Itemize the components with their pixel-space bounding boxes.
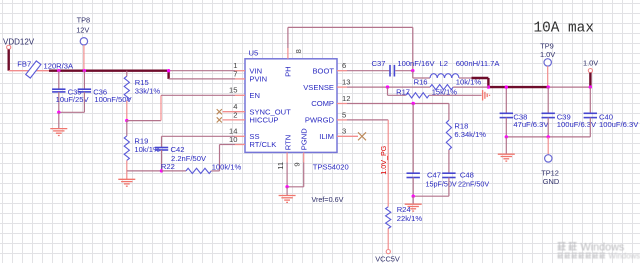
svg-text:RTN: RTN	[283, 135, 292, 150]
resistor R18	[446, 104, 451, 173]
label L2	[440, 59, 448, 68]
wire to pin 7	[169, 78, 235, 80]
capacitor C38	[500, 87, 513, 137]
svg-text:11: 11	[276, 162, 285, 170]
svg-text:100uF/6.3V: 100uF/6.3V	[599, 120, 639, 129]
junction	[505, 85, 508, 88]
junction	[125, 119, 128, 122]
wire SW	[413, 71, 430, 78]
svg-text:2: 2	[233, 110, 237, 119]
power port VCC5V	[375, 250, 400, 263]
svg-text:R22: R22	[161, 162, 175, 171]
svg-text:10: 10	[229, 135, 237, 144]
label C37	[372, 59, 386, 68]
wire	[9, 70, 50, 72]
svg-text:10k/1%: 10k/1%	[456, 78, 482, 87]
resistor R19	[124, 121, 129, 179]
svg-text:PH: PH	[284, 66, 293, 77]
value label 10uF/25V	[56, 95, 90, 104]
svg-text:R17: R17	[396, 88, 410, 97]
test point TP8	[76, 15, 90, 70]
value label 600nH/11.7A	[456, 59, 501, 68]
svg-text:100k/1%: 100k/1%	[212, 163, 242, 172]
svg-text:C47: C47	[427, 170, 441, 179]
wire	[127, 170, 162, 172]
junction	[285, 185, 288, 188]
value label 2.2nF/50V	[171, 154, 207, 163]
pin PGND wire	[287, 152, 304, 186]
resistor R24	[386, 207, 391, 250]
value label 47uF/6.3V	[513, 120, 549, 129]
svg-text:15pF/50V: 15pF/50V	[426, 180, 457, 189]
svg-text:6.34k/1%: 6.34k/1%	[454, 130, 486, 139]
svg-text:47uF/6.3V: 47uF/6.3V	[513, 120, 549, 129]
pin name PGND	[299, 128, 308, 150]
value label 22nF/50V	[458, 180, 489, 189]
svg-text:VCC5V: VCC5V	[375, 255, 400, 263]
test point TP9	[540, 41, 555, 87]
label C48	[460, 170, 474, 179]
svg-text:9: 9	[293, 162, 302, 166]
wire COMP	[347, 103, 449, 105]
ground	[279, 187, 296, 203]
note Vref	[312, 195, 344, 204]
op-amp U5 TPS54020 body	[245, 48, 337, 152]
power port 1.0V	[583, 58, 598, 87]
junction	[57, 69, 60, 72]
label R22	[161, 162, 175, 171]
pin numbers left	[229, 61, 237, 144]
ground	[405, 196, 422, 211]
value label 100nF/50V	[94, 95, 132, 104]
svg-text:VSENSE: VSENSE	[303, 83, 334, 92]
svg-text:EN: EN	[249, 91, 260, 100]
value label 6.34k/1%	[454, 130, 486, 139]
svg-text:HICCUP: HICCUP	[249, 116, 278, 125]
svg-text:7: 7	[233, 69, 237, 78]
label R17	[396, 88, 410, 97]
value label 10k/1%	[134, 145, 160, 154]
svg-text:TP8: TP8	[77, 15, 91, 24]
svg-text:10A max: 10A max	[534, 21, 594, 37]
svg-text:PWRGD: PWRGD	[305, 116, 335, 125]
junction	[411, 69, 414, 72]
ground	[118, 179, 135, 186]
label R19	[134, 136, 148, 145]
svg-text:RT/CLK: RT/CLK	[249, 140, 276, 149]
label TPS54020	[313, 163, 349, 172]
value label 10k/1%	[456, 78, 482, 87]
pin number 11	[276, 162, 285, 170]
svg-text:1.0V: 1.0V	[540, 50, 555, 59]
svg-text:BOOT: BOOT	[312, 66, 334, 75]
svg-text:R24: R24	[397, 205, 411, 214]
junction	[57, 111, 60, 114]
svg-text:C42: C42	[171, 145, 185, 154]
junction	[160, 169, 163, 172]
wire	[548, 86, 590, 88]
svg-text:15k/1%: 15k/1%	[432, 88, 458, 97]
capacitor C40	[584, 87, 597, 137]
wire BOOT	[347, 70, 389, 72]
no-connect X pin 2	[217, 117, 222, 122]
svg-text:PGND: PGND	[299, 128, 308, 150]
junction	[412, 195, 415, 198]
svg-text:TPS54020: TPS54020	[313, 163, 349, 172]
svg-text:GND: GND	[543, 177, 559, 186]
pin number 9	[293, 162, 302, 166]
svg-text:Windows: Windows	[609, 251, 640, 260]
wire SS net	[162, 136, 236, 147]
pins right stubs	[337, 71, 358, 137]
test point TP12	[541, 137, 559, 186]
label C40	[599, 112, 613, 121]
ground	[483, 90, 490, 100]
resistor R16	[430, 85, 488, 90]
label R24	[397, 205, 411, 214]
value label 15pF/50V	[426, 180, 457, 189]
ground	[50, 112, 67, 135]
wire 1.0V bus	[472, 78, 549, 87]
capacitor C47	[407, 104, 420, 197]
svg-text:33k/1%: 33k/1%	[135, 86, 161, 95]
wire	[459, 77, 472, 79]
label R18	[454, 121, 468, 130]
svg-text:2.2nF/50V: 2.2nF/50V	[171, 154, 207, 163]
svg-text:22k/1%: 22k/1%	[397, 214, 423, 223]
inductor L2	[430, 74, 459, 78]
pin names right	[303, 66, 334, 141]
label C47	[427, 170, 441, 179]
svg-text:6: 6	[342, 61, 346, 70]
label C38	[513, 112, 527, 121]
pins left stubs	[223, 71, 246, 145]
label C39	[557, 112, 571, 121]
pin RTN wire	[286, 152, 288, 186]
wire EN net	[127, 95, 235, 120]
no-connect X pin 4	[217, 109, 222, 114]
value label 22k/1%	[397, 214, 423, 223]
resistor R22	[162, 145, 236, 174]
capacitor C37	[390, 65, 394, 77]
power port VDD12V	[3, 38, 35, 71]
label C36	[93, 87, 107, 96]
junction	[547, 85, 550, 88]
title 10A max	[534, 21, 594, 37]
svg-text:22nF/50V: 22nF/50V	[458, 180, 489, 189]
ground	[498, 137, 515, 161]
svg-text:COMP: COMP	[311, 99, 334, 108]
svg-text:C48: C48	[460, 170, 474, 179]
svg-text:1.0V_PG: 1.0V_PG	[379, 145, 388, 175]
svg-text:U5: U5	[249, 48, 259, 57]
wire	[506, 136, 590, 138]
value label 15k/1%	[432, 88, 458, 97]
label C35	[68, 87, 82, 96]
capacitor C48	[442, 173, 455, 196]
junction	[412, 102, 415, 105]
svg-text:8: 8	[294, 49, 303, 53]
wire VDD12V bus	[49, 70, 169, 79]
label R16	[414, 78, 428, 87]
svg-text:15: 15	[229, 86, 237, 95]
pin numbers right	[342, 61, 350, 136]
wire PWRGD	[347, 120, 388, 207]
junction	[386, 85, 389, 88]
junction	[167, 69, 170, 72]
wire	[395, 70, 413, 72]
svg-text:5: 5	[342, 110, 346, 119]
svg-text:Vref=0.6V: Vref=0.6V	[312, 195, 344, 204]
watermark activate windows	[558, 241, 640, 260]
svg-text:13: 13	[342, 78, 350, 87]
capacitor C35	[52, 71, 65, 113]
value label 100nF/16V	[397, 59, 435, 68]
label R15	[135, 78, 149, 87]
pin PH wire	[288, 27, 413, 70]
junction	[505, 135, 508, 138]
pin name RTN	[283, 135, 292, 150]
svg-text:FB7: FB7	[17, 60, 31, 69]
svg-text:100nF/16V: 100nF/16V	[397, 59, 435, 68]
svg-text:C37: C37	[372, 59, 386, 68]
svg-text:TP12: TP12	[541, 168, 559, 177]
pin names left	[249, 66, 291, 149]
value label 33k/1%	[135, 86, 161, 95]
resistor R15	[124, 71, 129, 121]
value label 100uF/6.3V	[557, 120, 597, 129]
pin name PH	[284, 66, 293, 77]
svg-text:100uF/6.3V: 100uF/6.3V	[557, 120, 597, 129]
svg-text:L2: L2	[440, 59, 448, 68]
svg-text:TP9: TP9	[540, 41, 554, 50]
value label 120R/3A	[44, 62, 74, 71]
capacitor C42	[155, 148, 168, 171]
junction	[487, 85, 490, 88]
capacitor C39	[542, 87, 555, 137]
svg-text:PVIN: PVIN	[249, 75, 267, 84]
svg-text:1.0V: 1.0V	[583, 58, 598, 67]
wire	[59, 111, 85, 113]
resistor R17	[388, 87, 482, 98]
value label 100uF/6.3V	[599, 120, 639, 129]
svg-text:R16: R16	[414, 78, 428, 87]
label C42	[171, 145, 185, 154]
junction	[589, 85, 592, 88]
capacitor C36	[78, 71, 91, 113]
wire	[413, 195, 449, 197]
wire VSENSE	[347, 86, 430, 88]
junction	[83, 69, 86, 72]
junction	[547, 135, 550, 138]
svg-text:600nH/11.7A: 600nH/11.7A	[456, 59, 501, 68]
ferrite bead FB7	[17, 60, 41, 78]
svg-text:12V: 12V	[76, 26, 89, 35]
net label 1.0V_PG	[379, 145, 388, 175]
wire to pin 1	[169, 70, 235, 72]
no-connect X pin 3	[358, 132, 366, 140]
svg-text:ILIM: ILIM	[319, 132, 334, 141]
pin number 8	[294, 49, 303, 53]
value label 100k/1%	[212, 163, 242, 172]
svg-text:3: 3	[342, 127, 346, 136]
svg-text:12: 12	[342, 94, 350, 103]
